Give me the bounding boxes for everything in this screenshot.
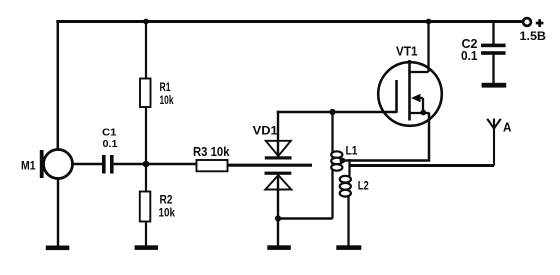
svg-text:R3 10k: R3 10k xyxy=(193,145,230,159)
ground M1 xyxy=(46,179,70,251)
svg-text:L2: L2 xyxy=(358,179,369,193)
label R1 10k xyxy=(160,80,174,107)
supply terminal +1.5V xyxy=(523,18,531,26)
label C1 0.1 xyxy=(102,128,118,151)
wire VD1 bottom to L1 bottom xyxy=(278,217,333,220)
wire node to R3 xyxy=(146,163,197,166)
varicap pair VD1 xyxy=(265,111,292,246)
wire C1 to node xyxy=(114,163,146,166)
resistor R3 xyxy=(197,160,228,171)
wire M1 to C1 xyxy=(73,163,103,166)
svg-text:10k: 10k xyxy=(159,206,176,220)
wire rail to R1 xyxy=(145,22,147,80)
transistor VT1 (MOSFET) xyxy=(378,60,442,126)
capacitor C2 xyxy=(481,44,506,55)
resistor R2 xyxy=(140,192,151,222)
wire L2 top stub xyxy=(348,159,350,176)
label R2 10k xyxy=(159,193,176,220)
svg-text:VT1: VT1 xyxy=(396,44,418,59)
junction dot gate node / L1 xyxy=(329,109,335,115)
wire R3 to VD1 midpoint xyxy=(228,164,313,167)
wire gate node: VD1 top to VT1 gate xyxy=(277,111,397,114)
svg-text:0.1: 0.1 xyxy=(461,49,478,63)
inductor L2 xyxy=(340,176,351,197)
wire top supply rail xyxy=(56,20,523,23)
wire antenna line (L2 stub to antenna) xyxy=(350,164,495,167)
ground VD1 xyxy=(267,245,291,250)
wire node to R2 xyxy=(145,164,147,192)
svg-text:1.5В: 1.5В xyxy=(520,29,547,43)
junction dot L1 tap xyxy=(340,158,346,164)
svg-text:VD1: VD1 xyxy=(253,124,278,138)
wire VT1 drain to rail xyxy=(427,20,429,72)
svg-text:L1: L1 xyxy=(346,144,358,158)
svg-text:R2: R2 xyxy=(160,193,173,207)
resistor R1 xyxy=(140,79,151,108)
junction dot VD1 bottom xyxy=(275,215,281,221)
microphone M1 xyxy=(40,150,73,179)
svg-text:A: A xyxy=(503,121,512,135)
junction dot rail/R1 xyxy=(143,19,149,25)
antenna A xyxy=(487,119,501,166)
wire rail to C2 xyxy=(492,20,494,44)
ground C2 xyxy=(482,55,507,88)
wire L2 to ground xyxy=(347,196,349,246)
svg-text:10k: 10k xyxy=(160,93,174,107)
ground L2 xyxy=(336,245,361,250)
inductor L1 xyxy=(331,151,342,170)
svg-text:R1: R1 xyxy=(160,80,171,94)
svg-text:0.1: 0.1 xyxy=(103,139,118,150)
label C2 0.1 xyxy=(461,37,478,63)
wire L1 axis (gate node down to ground wire) xyxy=(331,112,333,219)
node signal junction (C1/R1/R2/R3) xyxy=(143,161,150,168)
wire left rail down to M1 xyxy=(57,20,60,150)
ground R2 xyxy=(135,222,159,250)
svg-text:C1: C1 xyxy=(102,128,117,139)
wire L1 tap to VT1 source xyxy=(342,113,429,161)
label + 1.5V xyxy=(520,19,547,43)
svg-text:M1: M1 xyxy=(21,159,36,173)
wire R1 to node xyxy=(145,107,147,164)
capacitor C1 xyxy=(102,155,114,174)
junction dot rail/drain xyxy=(426,19,432,25)
